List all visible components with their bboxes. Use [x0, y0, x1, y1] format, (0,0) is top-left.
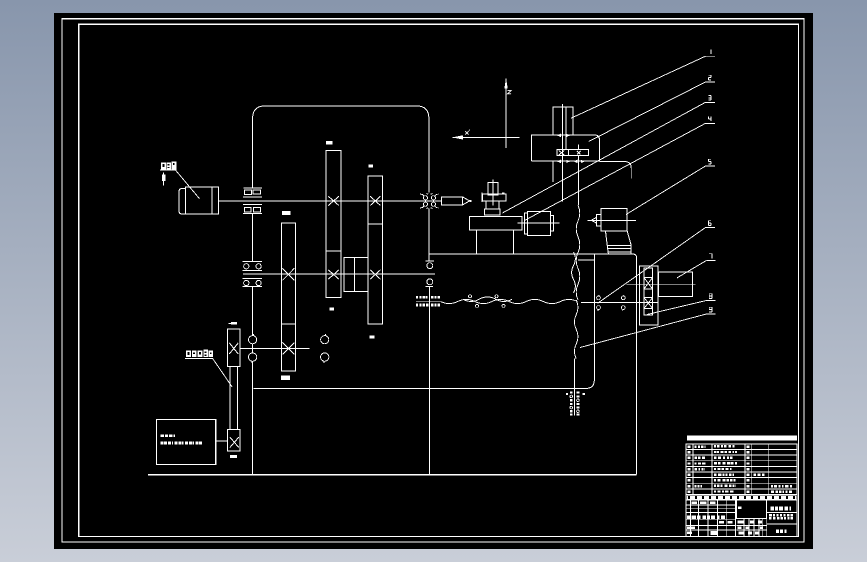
vertical link below pulley P1: [251, 214, 253, 261]
spec text line 2: [161, 442, 164, 445]
vertical wavy second (break pair): [572, 252, 576, 293]
gear B label above: [326, 141, 333, 145]
vise pedestal: [477, 230, 514, 254]
ball screw line: [581, 301, 658, 303]
tick marks on column shank: [558, 134, 561, 136]
break loops: [469, 295, 472, 298]
slot in block: [557, 150, 588, 156]
gear C label below: [370, 335, 375, 338]
pulley P1 on motor shaft (cross-section squares): [244, 187, 262, 189]
flex coupling elbow: [606, 231, 632, 245]
saddle block top edge and right edge: [594, 254, 636, 475]
clutch on shaft III: [282, 324, 296, 371]
shaft II center line: [243, 273, 435, 275]
vise cross arm: [483, 194, 507, 201]
gear C upper mesh cross on shaft I: [370, 196, 380, 205]
table top line: [430, 253, 578, 255]
pulley circles on shaft III at left: [249, 336, 257, 344]
axis label Z: [508, 91, 512, 94]
sync-belt top sheave box on shaft III: [228, 329, 240, 367]
fit tolerance callout rows near shaft II: [416, 300, 440, 302]
leader line to motor: [176, 170, 200, 198]
title block lower grid: [686, 500, 797, 536]
vise step: [484, 209, 500, 215]
gearbox lower outline with rounded corner: [253, 254, 594, 388]
sliding block between gears: [344, 258, 368, 292]
bearing cross upper: [644, 278, 653, 290]
bearing B1 left of shaft II (lower): [243, 277, 262, 279]
university name text: [771, 506, 774, 510]
parts list text marks: [695, 445, 697, 447]
title right column: [766, 500, 768, 536]
machine base bottom line: [148, 474, 637, 476]
clutch label below: [281, 376, 290, 380]
drawing number box: [736, 500, 766, 518]
bearing cross lower: [644, 298, 653, 309]
parts list header row dense: [687, 495, 797, 500]
leader 1 to tapping column: [571, 56, 706, 118]
wire from block to feed unit: [600, 162, 632, 179]
vise neck: [486, 201, 499, 209]
motor M (main drive): [186, 187, 213, 214]
drill tool on shaft I: [442, 197, 470, 205]
spindle vertical to bottom line: [428, 287, 430, 475]
vertical wavy break line: [576, 205, 580, 300]
leader 4 to clamp motor: [525, 123, 706, 220]
parts list table: [686, 444, 797, 500]
arrow mark above sheave: [231, 322, 237, 325]
gear B upper mesh cross on shaft I: [328, 196, 339, 205]
vertical link pulley to bottom line: [251, 287, 253, 475]
gear B label below: [330, 308, 334, 311]
drawing title text lines: [769, 514, 772, 517]
sync-belt bottom sheave box (motor): [228, 430, 240, 452]
gear block C (double gear): [368, 176, 382, 324]
leader 2 to head block: [589, 82, 706, 141]
misc cell texts: [692, 501, 698, 504]
title mid sub-grid: [736, 518, 766, 520]
inner border frame: [79, 24, 799, 536]
coupling bands: [607, 244, 631, 246]
gear A label: [282, 211, 291, 215]
bearing B1 left of shaft II (upper): [243, 261, 262, 263]
ball nut circles: [597, 296, 601, 300]
tapping head column: [553, 107, 573, 135]
gear C label above: [369, 164, 374, 167]
shaft III center line: [240, 347, 310, 349]
gear block B (double gear): [326, 151, 341, 298]
leader 7 to end support: [677, 261, 706, 278]
label tongbudai (belt label) with leader: [161, 163, 166, 170]
outer border frame: [62, 19, 804, 542]
label below bottom sheave: [230, 455, 237, 458]
leader 9 to column body: [580, 314, 706, 348]
gear B lower mesh cross on shaft II: [328, 270, 339, 279]
gear A on shaft II: [282, 223, 296, 324]
pulley circles on shaft III at right: [321, 336, 329, 344]
screw bearing housing: [639, 266, 658, 325]
axis label X: [465, 130, 470, 135]
clamp motor: [524, 213, 527, 234]
pulley P2 curl symbols at spindle: [423, 196, 427, 200]
vise screw column: [488, 183, 498, 195]
spec box of belt motor: [157, 420, 216, 465]
vertical tolerance text stack: [570, 392, 573, 394]
sync belt straps: [229, 367, 231, 430]
tick marks below block: [558, 160, 561, 162]
vertical line continuing wavy to bottom: [574, 359, 576, 416]
parts list top band: [687, 436, 797, 441]
spindle vertical below pulley P2: [428, 209, 430, 261]
leader 8 to screw bearing: [647, 301, 706, 315]
gear A mesh cross: [283, 268, 295, 280]
coordinate axes cross: [505, 78, 507, 148]
feed motor: [591, 217, 596, 223]
vise base: [470, 216, 522, 230]
school name text bar: [687, 516, 690, 520]
scale text: [776, 530, 779, 533]
belt loop outline (rounded): [253, 106, 429, 193]
leader 3 to vise: [502, 102, 705, 213]
horizontal wavy break line: [441, 299, 578, 303]
spec text line 1: [161, 435, 164, 438]
tapping head block: [531, 135, 599, 161]
support center line: [626, 283, 695, 285]
bearing circles right end of shaft II: [425, 260, 434, 262]
shaft I center line: [219, 200, 442, 202]
verticals below block: [552, 161, 554, 182]
wire spec box to belt: [216, 440, 228, 442]
label tongbudai-chuandong with underline and leader: [186, 351, 191, 358]
gear C lower mesh cross on shaft II: [370, 270, 380, 279]
leader 6 to ball nut: [598, 228, 706, 304]
screw end support rect: [658, 272, 692, 297]
table tab lines near wavy break: [578, 253, 594, 255]
leader 5 to feed motor: [626, 166, 706, 215]
